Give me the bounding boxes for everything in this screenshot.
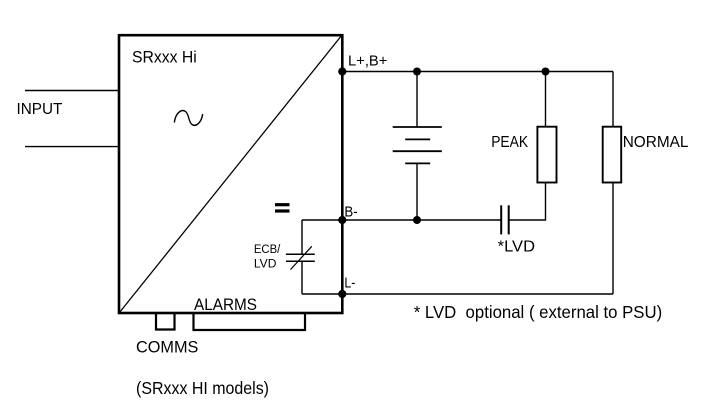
wire L+,B+ bus — [342, 71, 613, 73]
converter diagonal — [120, 36, 341, 312]
wire NORMAL branch bottom — [612, 183, 614, 295]
svg-text:LVD: LVD — [254, 258, 277, 270]
battery BT1 — [393, 127, 442, 163]
wire NORMAL branch top — [612, 72, 614, 127]
wire battery branch top — [416, 72, 418, 128]
PSU converter box U1 — [119, 35, 342, 313]
DC symbol (=) — [275, 203, 290, 206]
node L+,B+ — [338, 67, 346, 75]
wire battery branch bottom — [416, 163, 418, 220]
node L- — [338, 290, 346, 298]
svg-text:* LVD optional ( external to: * LVD optional ( external to PSU) — [414, 302, 663, 322]
wire B- bus — [302, 219, 501, 221]
wire ECB branch upper — [301, 220, 303, 254]
junction dot battery top — [413, 68, 421, 76]
node B- — [338, 216, 346, 224]
svg-text:L-: L- — [344, 276, 355, 292]
wire PEAK branch top — [545, 72, 547, 127]
junction dot battery bottom — [413, 216, 421, 224]
svg-text:ALARMS: ALARMS — [194, 295, 257, 314]
svg-text:COMMS: COMMS — [136, 338, 198, 357]
ECB/LVD contactor — [286, 246, 315, 269]
svg-text:B-: B- — [344, 204, 357, 220]
AC sine symbol — [174, 111, 202, 126]
resistor PEAK load — [537, 127, 556, 183]
wire ECB branch lower — [301, 261, 303, 294]
COMMS tab connector — [156, 313, 175, 329]
wire L- bus — [302, 293, 613, 295]
resistor NORMAL load — [603, 127, 622, 183]
capacitor *LVD C1 — [501, 205, 509, 234]
svg-text:L+,B+: L+,B+ — [348, 53, 388, 70]
input wire top — [25, 90, 118, 92]
ALARMS tab connector — [194, 313, 306, 330]
svg-text:*LVD: *LVD — [498, 239, 535, 256]
svg-text:NORMAL: NORMAL — [623, 134, 689, 151]
svg-text:INPUT: INPUT — [17, 101, 63, 118]
svg-text:SRxxx Hi: SRxxx Hi — [132, 48, 197, 67]
wire PEAK branch bottom — [509, 183, 546, 221]
junction dot PEAK top — [542, 68, 550, 76]
svg-text:(SRxxx HI models): (SRxxx HI models) — [136, 378, 269, 398]
svg-text:PEAK: PEAK — [491, 134, 528, 151]
svg-text:ECB/: ECB/ — [254, 244, 281, 256]
input wire bottom — [25, 146, 118, 148]
